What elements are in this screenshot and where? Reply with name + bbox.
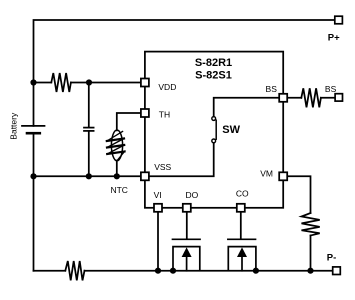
wire VDD row left lead: [34, 82, 52, 84]
svg-text:TH: TH: [159, 110, 170, 120]
svg-text:P-: P-: [327, 253, 337, 264]
wire DO pin down to gate: [186, 208, 188, 239]
wire bottom rail to P-: [85, 270, 333, 272]
svg-text:SW: SW: [222, 124, 240, 136]
resistor (VDD series): [51, 73, 71, 92]
wire VSS row: [34, 175, 145, 177]
wire switch top to BS pin: [214, 98, 284, 117]
transistor Q1 channel: [173, 247, 200, 271]
svg-text:S-82S1: S-82S1: [195, 70, 232, 82]
resistor (bottom rail sense): [65, 261, 84, 280]
junction Q2 drain / bottom rail: [253, 268, 259, 274]
wire internal VSS to switch: [145, 143, 214, 176]
pin CO: [237, 204, 245, 212]
transistor Q2 gate bar: [228, 238, 256, 240]
wire NTC bottom to VSS row: [116, 161, 118, 177]
pin BS: [279, 94, 287, 102]
op-amp IC body S-82R1/S-82S1: [145, 52, 283, 208]
junction capacitor bottom / VSS row: [86, 173, 92, 179]
pin VM: [279, 172, 287, 180]
wire VM resistor to bottom rail: [310, 236, 312, 271]
capacitor C1: [84, 83, 94, 177]
svg-text:Battery: Battery: [8, 112, 18, 140]
svg-text:P+: P+: [328, 32, 340, 43]
junction VM resistor / bottom rail: [307, 268, 313, 274]
junction VDD node / capacitor top: [86, 79, 92, 85]
resistor (VM series): [302, 213, 320, 236]
terminal P+: [335, 16, 343, 24]
svg-text:VI: VI: [154, 190, 162, 200]
wire battery- down left side: [33, 133, 35, 271]
wire VDD row right lead to VDD pin: [71, 82, 145, 84]
wire resistor to BS terminal: [321, 97, 339, 99]
pin DO: [183, 204, 191, 212]
pin VSS: [141, 172, 149, 180]
battery BT1: [22, 126, 45, 133]
svg-text:VDD: VDD: [158, 82, 176, 92]
wire bottom rail left lead: [34, 270, 66, 272]
transistor Q2 channel: [228, 247, 256, 271]
resistor (BS series): [301, 88, 321, 107]
pin VDD: [141, 79, 149, 87]
pin TH: [141, 109, 149, 117]
svg-text:BS: BS: [266, 84, 278, 94]
junction Q1 source / bottom rail: [170, 268, 176, 274]
svg-text:CO: CO: [236, 188, 249, 198]
wire CO pin down to gate: [240, 208, 242, 239]
transistor Q1 gate bar: [173, 238, 201, 240]
terminal BS: [335, 94, 342, 101]
wire VM pin to right then down: [283, 176, 310, 213]
transistor Q1 body-diode arrow: [182, 247, 192, 270]
junction NTC bottom / VSS row: [114, 173, 120, 179]
junction VI / bottom rail: [155, 268, 161, 274]
switch SW: [212, 117, 216, 143]
svg-text:DO: DO: [186, 190, 199, 200]
svg-text:VM: VM: [260, 169, 273, 179]
transistor Q2 body-diode arrow: [237, 247, 247, 270]
junction battery-/VSS row: [30, 173, 36, 179]
junction battery+/VDD resistor: [30, 79, 36, 85]
svg-text:BS: BS: [325, 84, 337, 94]
pin VI: [154, 204, 162, 212]
thermistor NTC: [107, 130, 125, 161]
wire TH to NTC: [117, 113, 145, 130]
wire VI pin down to rail: [157, 208, 159, 271]
svg-text:VSS: VSS: [154, 162, 171, 172]
svg-text:NTC: NTC: [110, 185, 127, 195]
wire top rail (battery+ to P+): [34, 20, 335, 126]
svg-text:S-82R1: S-82R1: [195, 57, 232, 69]
wire BS pin to external resistor: [283, 97, 301, 99]
terminal P-: [333, 267, 341, 275]
